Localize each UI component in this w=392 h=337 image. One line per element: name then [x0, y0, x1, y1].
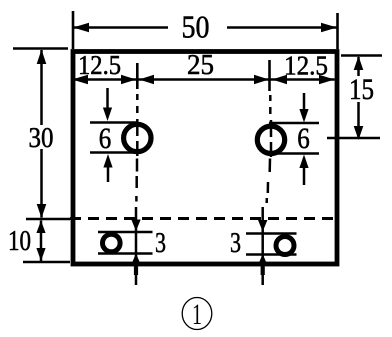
dim 50 arrow right: [321, 23, 337, 33]
bottom-right dia-3 arrow up: [258, 254, 267, 265]
figure number circle: [182, 298, 212, 330]
bottom-left dia-3 arrow up: [131, 254, 140, 265]
svg-text:12.5: 12.5: [284, 51, 328, 81]
bottom-right hole circle: [276, 237, 294, 255]
top-left dia-6 arrow down head: [103, 108, 112, 122]
right centerline through circle: [270, 120, 273, 157]
dim 50 line left segment: [73, 26, 168, 29]
top-right dia-6 arrow down shaft: [303, 93, 306, 111]
top-left hole bottom tangent: [90, 151, 139, 154]
left centerline through circle: [136, 119, 139, 156]
dim 10 line: [40, 221, 43, 262]
top-right hole top tangent: [269, 122, 319, 125]
svg-text:30: 30: [29, 122, 54, 154]
right centerline dashes above circle: [269, 95, 272, 114]
bottom-left hole top tangent: [98, 231, 153, 234]
top-left hole circle: [124, 124, 151, 151]
bottom-left centerline stub below edge: [134, 266, 138, 275]
dim 10 extension tick bottom: [23, 261, 70, 264]
right centerline tick through dim row: [268, 60, 271, 91]
svg-text:3: 3: [230, 227, 241, 259]
dim 12.5 right arrow at left centerline: [121, 75, 136, 84]
bottom-left dia-3 arrow down: [131, 220, 140, 232]
hidden edge dashed line: [70, 217, 337, 220]
top-right dia-6 arrow up head: [299, 155, 308, 169]
top-right dia-6 arrow up shaft: [303, 167, 306, 185]
bottom-right centerline stub below edge: [261, 266, 265, 275]
dim 15 line lower: [357, 102, 360, 139]
svg-text:12.5: 12.5: [78, 50, 121, 80]
svg-text:10: 10: [8, 226, 31, 257]
dim 25 right arrow: [254, 75, 269, 84]
bottom-right hole top tangent: [246, 232, 297, 235]
dim 50 line right segment: [227, 26, 337, 29]
svg-text:50: 50: [182, 9, 210, 45]
top-left dia-6 arrow down shaft: [106, 88, 109, 110]
dim 25 left arrow: [139, 75, 154, 84]
svg-text:25: 25: [187, 50, 214, 81]
plate outline: [73, 52, 337, 265]
dim 30 extension tick top: [13, 47, 68, 50]
dim 12.5 right: left arrow: [272, 75, 287, 84]
dim 15 extension tick bottom: [327, 137, 380, 140]
top-right dia-6 arrow down head: [299, 109, 308, 123]
dim 12.5 right: right arrow: [319, 75, 335, 84]
dim 30 line lower: [40, 149, 43, 218]
left centerline dashes below circle: [135, 159, 138, 202]
bottom-right hole bottom tangent: [246, 253, 297, 256]
dim 50 extension line right: [336, 13, 339, 49]
bottom-right dia-3 arrow down: [258, 220, 267, 232]
svg-text:6: 6: [297, 122, 310, 155]
dim row line 12.5/25/12.5: [72, 78, 335, 81]
right centerline solid bottom section: [261, 207, 264, 285]
dim 50 extension line left: [72, 11, 75, 49]
dim 10 arrow up: [36, 221, 45, 234]
svg-text:15: 15: [349, 73, 374, 106]
dim 15 arrow down: [354, 126, 364, 140]
dim 15 arrow up: [354, 56, 364, 70]
dim 30 arrow up: [37, 50, 47, 65]
top-left hole top tangent: [90, 121, 139, 124]
dim 12.5 left arrow: [72, 75, 88, 84]
svg-text:1: 1: [192, 298, 202, 331]
dim 30/10 shared extension tick: [26, 218, 70, 221]
top-right hole bottom tangent: [267, 152, 319, 155]
right centerline dashes below circle: [267, 159, 270, 204]
dim 30 line upper: [40, 50, 43, 125]
bottom-left hole bottom tangent: [98, 252, 153, 255]
top-right hole circle: [257, 126, 284, 153]
bottom-left hole circle: [103, 234, 121, 252]
dim 50 arrow left: [73, 23, 89, 33]
left centerline solid bottom section: [135, 207, 138, 285]
dim 10 arrow down: [36, 248, 45, 261]
dim 15 extension tick top: [341, 54, 382, 57]
dim 15 line upper: [357, 57, 360, 76]
left centerline dashes above circle: [136, 94, 139, 113]
svg-text:6: 6: [99, 122, 112, 155]
svg-text:3: 3: [155, 227, 166, 259]
top-left dia-6 arrow up shaft: [107, 166, 110, 182]
left centerline tick through dim row: [136, 63, 139, 89]
dim 30 arrow down: [37, 204, 47, 218]
top-left dia-6 arrow up head: [103, 154, 112, 168]
